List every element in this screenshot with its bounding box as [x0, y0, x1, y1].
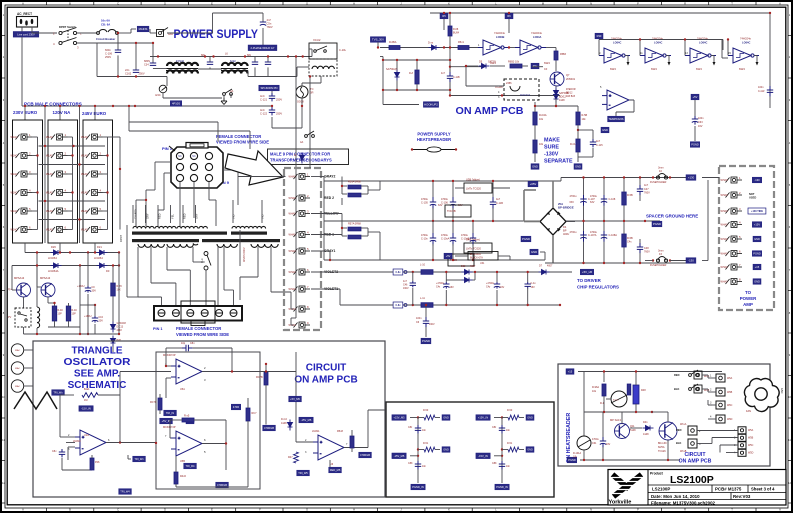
svg-text:ON AMP PCB: ON AMP PCB — [456, 105, 524, 117]
svg-text:C34: C34 — [144, 64, 149, 67]
net label +5V_LB — [580, 269, 593, 275]
svg-text:VIO: VIO — [232, 215, 236, 219]
svg-text:RED_M5: RED_M5 — [330, 468, 341, 472]
svg-text:TRI_W5: TRI_W5 — [298, 471, 308, 475]
svg-text:U5A: U5A — [180, 388, 185, 391]
diode D28 — [97, 263, 108, 268]
svg-text:250V: 250V — [276, 98, 282, 102]
diode D41 heatsreader — [643, 426, 654, 431]
to power amp connector box — [719, 166, 774, 310]
power amp pin 3 +130 TIDE — [726, 208, 743, 214]
svg-text:PGND: PGND — [691, 143, 699, 147]
capacitor C162 — [135, 43, 137, 70]
svg-text:63V: 63V — [570, 201, 575, 204]
capacitor C-108 lower — [601, 231, 607, 242]
svg-text:-15V_IN: -15V_IN — [478, 454, 488, 458]
resistor RC7B vertical pair — [158, 398, 162, 410]
regulator U4B bottom TO220 — [464, 243, 492, 253]
svg-text:4148: 4148 — [643, 433, 649, 436]
wire stack feeders — [24, 106, 26, 120]
svg-text:R-x5: R-x5 — [184, 415, 190, 418]
svg-text:P: P — [637, 2, 639, 6]
bridge wires — [552, 181, 554, 208]
svg-text:R-50: R-50 — [507, 409, 513, 412]
power amp pin 1 -130 — [726, 177, 743, 183]
pin1 arrow mark — [169, 146, 175, 151]
svg-text:D-C2: D-C2 — [281, 418, 287, 421]
svg-text:WHA0: WHA0 — [289, 234, 297, 237]
svg-text:16V: 16V — [606, 443, 611, 446]
svg-text:RED 2: RED 2 — [324, 196, 334, 200]
hv filter capacitors bottom row — [430, 233, 436, 246]
svg-text:WHA0: WHA0 — [721, 238, 729, 241]
svg-text:W1AC: W1AC — [81, 210, 88, 213]
svg-text:5148: 5148 — [630, 429, 636, 432]
stack right bus to 120 — [108, 136, 121, 138]
svg-text:RED: RED — [674, 373, 680, 377]
svg-text:POWER SUPPLY: POWER SUPPLY — [174, 29, 259, 41]
svg-text:R5x8: R5x8 — [337, 430, 343, 433]
svg-text:VIO: VIO — [261, 215, 265, 219]
svg-text:LO04B: LO04B — [496, 35, 504, 39]
svg-text:K: K — [448, 2, 450, 6]
svg-text:WHA0: WHA0 — [721, 210, 729, 213]
oscillator big box outline — [33, 341, 385, 497]
U5A wires — [166, 347, 182, 349]
svg-text:SURE: SURE — [544, 145, 559, 151]
svg-text:AC_RECT: AC_RECT — [17, 12, 32, 16]
connector W2D pin — [51, 190, 68, 196]
U2 wires — [60, 394, 74, 396]
svg-text:C-107A: C-107A — [588, 234, 597, 237]
svg-text:B-E1: B-E1 — [84, 388, 90, 391]
resistor R-D4B chain — [533, 140, 537, 153]
resistor RC5 below U2 — [90, 458, 94, 470]
svg-text:470RGB: 470RGB — [360, 453, 370, 457]
svg-text:C8K: C8K — [492, 462, 497, 465]
svg-text:LF4064A: LF4064A — [48, 269, 59, 273]
svg-text:TRI_Wx: TRI_Wx — [53, 391, 63, 395]
svg-text:W1AC: W1AC — [46, 210, 53, 213]
resistor R-ss — [627, 384, 631, 395]
net label TRI_W5 — [297, 470, 310, 476]
capacitor upper — [415, 425, 421, 433]
svg-text:PIN 1: PIN 1 — [153, 327, 163, 331]
connector W2F pin — [51, 227, 68, 233]
transformer T2 primary winding — [232, 226, 266, 228]
net label 470RGB outer right — [359, 452, 372, 458]
svg-text:W5D: W5D — [748, 452, 754, 455]
svg-text:POWER SUPPLY: POWER SUPPLY — [417, 132, 451, 137]
wire stack bottoms to diode rows — [24, 243, 26, 253]
connector stack box 3 — [83, 120, 113, 243]
wire U5A out to right — [232, 371, 296, 373]
svg-text:XCU2: XCU2 — [313, 38, 321, 42]
svg-text:A: A — [779, 508, 781, 512]
svg-text:+130: +130 — [688, 176, 695, 180]
svg-text:PGND: PGND — [422, 339, 430, 343]
svg-text:R-D4A: R-D4A — [539, 114, 547, 117]
connector W1D pin — [16, 190, 33, 196]
svg-text:WAC: WAC — [15, 385, 20, 388]
diode pair near male box — [300, 153, 305, 164]
wires from transformer to male pins — [238, 176, 286, 178]
wire red1 gray1 rows — [311, 234, 342, 236]
svg-text:Date: Mon Jun 14, 2010: Date: Mon Jun 14, 2010 — [651, 494, 700, 499]
violet2 rail — [311, 271, 572, 273]
transformer T2 secondary winding — [217, 244, 237, 247]
wire inlet to switch row1 — [31, 27, 33, 33]
violet1 rail — [311, 288, 340, 290]
wire male pin9 — [295, 226, 297, 318]
male pin 7 VIOLET1 — [294, 286, 311, 292]
label MALE 9 PIN CONNECTOR boxed — [268, 149, 349, 165]
U6 wires — [296, 441, 313, 443]
svg-text:YEL: YEL — [171, 214, 175, 219]
svg-text:TC: TC — [310, 87, 314, 91]
svg-text:CB: 6A: CB: 6A — [101, 23, 110, 27]
svg-text:MC33072P: MC33072P — [163, 426, 176, 429]
svg-text:MAINS: MAINS — [139, 27, 148, 31]
svg-text:160V: 160V — [429, 323, 435, 326]
svg-text:120V NA: 120V NA — [53, 110, 72, 115]
svg-text:4n7: 4n7 — [644, 184, 649, 187]
svg-text:E: E — [211, 2, 213, 6]
svg-text:4148: 4148 — [281, 422, 287, 425]
svg-text:68n: 68n — [247, 54, 252, 57]
svg-text:4P10S: 4P10S — [172, 102, 180, 106]
svg-text:G: G — [306, 2, 308, 6]
svg-text:L-11: L-11 — [420, 297, 425, 300]
oscillator inner box outline — [156, 352, 260, 489]
svg-text:SEPARATE: SEPARATE — [544, 159, 573, 165]
left mini cluster of ON AMP PCB — [382, 57, 384, 101]
svg-text:250V: 250V — [276, 112, 282, 116]
transistor Q3 MPSA13 — [17, 283, 31, 297]
stack 2 internal wires — [72, 137, 74, 230]
svg-text:4n7: 4n7 — [267, 18, 272, 22]
net label -130V right — [686, 258, 696, 264]
svg-text:LF4064: LF4064 — [48, 256, 57, 260]
resistor R vertical right of inner — [246, 408, 250, 421]
secondary wires down to strip — [137, 247, 139, 297]
svg-text:16V: 16V — [531, 286, 536, 289]
svg-text:CIRCUIT: CIRCUIT — [684, 452, 706, 458]
svg-text:ON AMP PCB: ON AMP PCB — [679, 459, 712, 465]
capacitor C7n — [209, 57, 211, 63]
svg-text:10n: 10n — [506, 429, 511, 432]
svg-text:10P: 10P — [58, 313, 63, 316]
connector stack box 2 — [48, 120, 78, 243]
wire feeder to female connector lower — [129, 130, 250, 132]
svg-text:SG08: SG08 — [297, 100, 304, 104]
net label 470RGB right — [263, 425, 276, 431]
capacitor C46 — [410, 281, 416, 287]
connector W3A pin — [86, 134, 103, 140]
svg-text:TRI_W4: TRI_W4 — [120, 490, 130, 494]
svg-text:250V: 250V — [139, 72, 145, 76]
svg-text:D-C13: D-C13 — [117, 327, 124, 329]
svg-text:W1AC: W1AC — [11, 173, 18, 176]
svg-text:R5: R5 — [442, 14, 446, 18]
switch row2 wire — [77, 42, 98, 44]
mid junction — [417, 448, 419, 450]
svg-text:LM311: LM311 — [312, 430, 320, 433]
gate output stubs down — [625, 55, 628, 57]
connector W2C pin — [51, 171, 68, 177]
svg-text:+5V_M5: +5V_M5 — [290, 397, 300, 401]
bottom rail y95 — [450, 95, 560, 97]
svg-text:W1AC: W1AC — [46, 192, 53, 195]
svg-text:L-10: L-10 — [420, 264, 426, 267]
svg-text:WHA0: WHA0 — [721, 194, 729, 197]
svg-text:WHA0: WHA0 — [289, 176, 297, 179]
IC U-DA8 DIP — [504, 79, 539, 100]
mid rail y221 — [324, 220, 660, 222]
svg-text:BP-BRIDGE: BP-BRIDGE — [558, 206, 574, 210]
circuit breaker CB1 — [77, 32, 98, 34]
net label TVS_30V — [370, 37, 385, 43]
svg-text:22n: 22n — [125, 68, 130, 72]
svg-text:W1AC: W1AC — [81, 229, 88, 232]
svg-text:6923: 6923 — [651, 67, 657, 71]
osc box internal rail 1 — [120, 371, 171, 373]
svg-text:SA750A(8): SA750A(8) — [386, 68, 398, 71]
capacitor C63 — [692, 116, 698, 125]
resistor knot mid — [502, 449, 508, 451]
svg-text:W5A: W5A — [748, 429, 754, 432]
diode row 2 wire — [37, 265, 119, 267]
svg-text:BU04: BU04 — [453, 32, 460, 35]
net label R3x — [531, 63, 539, 69]
svg-text:W1AC: W1AC — [11, 136, 18, 139]
inductor L-11 — [421, 303, 433, 308]
svg-text:Filename: M1375V300.sch2002: Filename: M1375V300.sch2002 — [651, 501, 716, 506]
svg-text:6923: 6923 — [544, 61, 550, 65]
svg-text:FAN: FAN — [746, 409, 751, 413]
svg-text:TO: TO — [745, 290, 752, 295]
svg-text:SP160RN PD: SP160RN PD — [260, 86, 277, 90]
net label +5V above violet — [444, 253, 452, 259]
capacitor C-107 upper — [580, 195, 586, 206]
svg-text:C-105: C-105 — [421, 202, 428, 205]
svg-text:SAT5N: SAT5N — [488, 61, 496, 64]
svg-text:CHIP REGULATORS: CHIP REGULATORS — [577, 285, 619, 290]
ground symbol lower — [221, 98, 227, 105]
svg-text:LO04C: LO04C — [654, 40, 662, 44]
transistor Q12 BD139 — [659, 422, 677, 440]
svg-text:C-115: C-115 — [596, 144, 603, 147]
svg-text:RC7: RC7 — [252, 412, 258, 415]
svg-text:C-10xA: C-10xA — [441, 238, 450, 241]
mid junction — [501, 448, 503, 450]
net label TRI_WAVE bottom — [133, 456, 146, 462]
svg-text:P: P — [637, 508, 639, 512]
wire transistor emitters — [23, 297, 25, 308]
capacitor C-11Bb — [447, 72, 453, 82]
svg-text:U31: U31 — [480, 262, 485, 265]
net label GND top — [526, 415, 534, 421]
svg-text:D: D — [164, 2, 166, 6]
capacitor C6 — [423, 317, 429, 327]
connector W1B pin — [16, 153, 33, 159]
cap bank columns — [583, 178, 585, 264]
net label R5 top — [440, 13, 448, 19]
svg-text:4700u: 4700u — [570, 195, 578, 198]
svg-text:1M: 1M — [84, 399, 87, 402]
svg-text:PV: PV — [8, 316, 12, 319]
diode D-5A — [429, 45, 440, 50]
svg-text:DPDT: DPDT — [119, 235, 123, 242]
power amp pin 7 +15 — [726, 264, 743, 270]
svg-text:30V: 30V — [92, 290, 97, 293]
svg-text:4n7: 4n7 — [441, 72, 446, 75]
svg-text:SCHEMATIC: SCHEMATIC — [68, 380, 127, 391]
svg-text:WAC: WAC — [15, 349, 20, 352]
resistor R-E1 zigzag — [82, 393, 98, 398]
capacitor C7x — [254, 57, 256, 63]
svg-text:MP SA13: MP SA13 — [610, 418, 621, 422]
resistor knot top — [418, 417, 424, 419]
svg-text:63V: 63V — [590, 201, 595, 204]
svg-text:G: G — [306, 508, 308, 512]
svg-text:TO126: TO126 — [658, 450, 666, 453]
svg-text:R57A 0R68: R57A 0R68 — [348, 223, 361, 226]
svg-text:W1AC: W1AC — [46, 173, 53, 176]
wire yellow row to mid rail — [311, 213, 342, 215]
svg-text:SPACER GROUND HERE: SPACER GROUND HERE — [646, 214, 698, 219]
resistor R vertical right2 — [264, 372, 268, 385]
net label SP GRN PD — [259, 85, 279, 91]
svg-text:2386: 2386 — [506, 82, 512, 85]
wire lower distribution y106 — [22, 105, 272, 107]
svg-text:WHA0: WHA0 — [721, 266, 729, 269]
svg-text:D33: D33 — [461, 265, 466, 268]
svg-text:USED: USED — [749, 195, 756, 199]
svg-text:Sheet 3 of 4: Sheet 3 of 4 — [751, 487, 775, 492]
svg-text:OSCILATOR: OSCILATOR — [64, 357, 132, 368]
switch between secondaries — [204, 252, 211, 271]
svg-text:M: M — [542, 2, 544, 6]
svg-text:TOC3B: TOC3B — [447, 209, 456, 213]
svg-text:60/5A: 60/5A — [658, 446, 665, 449]
svg-text:GND: GND — [532, 165, 538, 169]
svg-text:4A: 4A — [230, 89, 233, 93]
capacitor C-4z — [525, 282, 531, 288]
svg-text:LM7x TO220: LM7x TO220 — [466, 187, 481, 191]
svg-text:TRI_Wx: TRI_Wx — [134, 457, 144, 461]
bypass cap box outline — [386, 402, 554, 497]
power amp pin 5 GND — [726, 236, 743, 242]
svg-text:PGND: PGND — [753, 252, 761, 256]
transformer T1 primary winding — [133, 226, 154, 228]
svg-text:R-1: R-1 — [600, 402, 605, 405]
svg-text:10n: 10n — [506, 465, 511, 468]
svg-text:+15V_M5: +15V_M5 — [393, 416, 405, 420]
svg-text:D26: D26 — [51, 245, 56, 249]
svg-text:C-106: C-106 — [441, 202, 448, 205]
svg-text:U1A: U1A — [84, 434, 89, 437]
resistor R group mid2 — [174, 472, 178, 484]
resistor R-68 vertical top — [449, 13, 451, 26]
diode D5 series — [479, 64, 490, 69]
wire mid vertical x296 — [295, 352, 297, 420]
net label 470R inner — [231, 404, 240, 410]
resistor R-D4A chain — [533, 112, 537, 125]
net label GND mid — [442, 447, 450, 453]
capacitor C4y pol — [494, 282, 500, 289]
vertical x119 — [118, 253, 120, 335]
inductor L-10 — [421, 270, 433, 275]
svg-text:MC33072P: MC33072P — [163, 354, 176, 357]
capacitor C48 small — [637, 243, 643, 253]
capacitor C47 small — [637, 185, 643, 195]
net label HOOKUP right of Q7 — [555, 86, 557, 88]
svg-text:4007: 4007 — [470, 265, 476, 268]
resistor R-5C lower — [622, 234, 626, 247]
svg-text:+: + — [178, 436, 180, 440]
svg-text:+5V_LB: +5V_LB — [582, 270, 592, 274]
svg-text:WAC: WAC — [15, 367, 20, 370]
svg-text:10n: 10n — [422, 465, 427, 468]
svg-text:RC7B: RC7B — [256, 376, 263, 379]
osc box internal rail 2 — [66, 442, 75, 444]
resistor R-5C right branch — [576, 139, 580, 152]
svg-text:PGND_IN: PGND_IN — [496, 485, 508, 489]
resistor right of U6 — [350, 436, 354, 448]
resistor R-4K box — [52, 306, 57, 321]
wire Q7 feed — [532, 66, 543, 68]
top rail to C5 — [213, 12, 264, 14]
bottom strip connector bracket — [181, 301, 215, 323]
resistor knot mid — [418, 449, 424, 451]
svg-text:WHA0: WHA0 — [721, 253, 729, 256]
svg-text:C-122: C-122 — [260, 112, 268, 116]
svg-text:TO DRIVER: TO DRIVER — [577, 278, 602, 283]
svg-text:WHA0: WHA0 — [721, 224, 729, 227]
capacitor C0J — [92, 316, 98, 323]
svg-text:WHA0: WHA0 — [721, 281, 729, 284]
net label +15 corner — [566, 369, 574, 375]
wire row1 behind title — [167, 32, 213, 34]
svg-text:-15V_IN: -15V_IN — [81, 407, 91, 411]
transformer T1 secondary winding — [138, 244, 164, 247]
net label PGND mid — [521, 236, 531, 242]
svg-text:D41: D41 — [643, 421, 648, 424]
svg-text:ON AMP PCB: ON AMP PCB — [294, 375, 357, 386]
net label +130V right — [686, 175, 696, 181]
wire filter to relay — [311, 49, 313, 57]
svg-text:6923: 6923 — [739, 67, 745, 71]
capacitor C0 — [85, 286, 91, 293]
power amp pin 4 +15V — [726, 222, 743, 228]
male pin 3 YELLOW — [294, 211, 311, 217]
male pin 2 RED 2 — [294, 195, 311, 201]
cap bank rails — [561, 177, 687, 179]
svg-text:VIEWED FROM WIRE SIDE: VIEWED FROM WIRE SIDE — [176, 332, 229, 337]
svg-text:R-Z: R-Z — [409, 72, 414, 75]
capacitor C-121 — [269, 93, 275, 101]
svg-text:4007: 4007 — [547, 265, 553, 268]
svg-text:R-51: R-51 — [507, 442, 513, 445]
svg-text:TRI_R4: TRI_R4 — [186, 464, 195, 468]
svg-text:C8n: C8n — [190, 342, 195, 345]
regulator U3B top TO220 — [464, 183, 492, 193]
svg-text:W1AC: W1AC — [46, 229, 53, 232]
svg-text:+15: +15 — [568, 370, 573, 374]
resistor pair R56A R56B — [348, 185, 361, 189]
svg-text:WHA0: WHA0 — [289, 250, 297, 253]
